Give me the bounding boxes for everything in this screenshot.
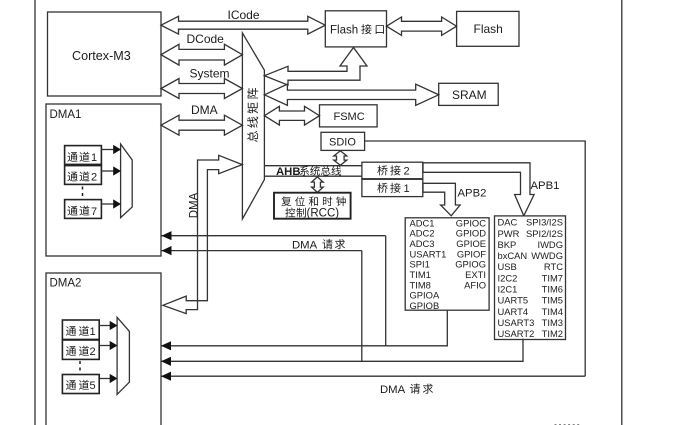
svg-text:TIM7: TIM7 — [542, 272, 563, 283]
svg-text:TIM4: TIM4 — [542, 306, 563, 317]
block SDIO — [321, 132, 365, 150]
svg-text:SPI3/I2S: SPI3/I2S — [526, 217, 563, 228]
svg-text:Flash: Flash — [330, 24, 358, 36]
bus matrix label 总线矩阵 (rotated) — [247, 131, 258, 142]
svg-text:DMA: DMA — [188, 192, 200, 218]
block FSMC — [320, 105, 378, 127]
svg-text:ICode: ICode — [228, 8, 260, 22]
svg-text:ADC2: ADC2 — [410, 228, 435, 239]
block Flash — [457, 11, 519, 46]
svg-text:I2C1: I2C1 — [498, 284, 518, 295]
block bridge1 桥接1 — [362, 179, 423, 196]
svg-text:DMA1: DMA1 — [50, 109, 82, 121]
bridge1 to APB2 hollow path — [423, 183, 460, 216]
svg-text:APB2: APB2 — [458, 187, 487, 199]
svg-text:1: 1 — [91, 152, 97, 164]
svg-text:RTC: RTC — [544, 261, 563, 272]
SDIO <-> AHB arrow — [334, 151, 347, 166]
svg-text:System: System — [190, 67, 230, 81]
svg-text:USART3: USART3 — [498, 317, 535, 328]
svg-text:FSMC: FSMC — [334, 111, 365, 123]
svg-text:TIM2: TIM2 — [542, 328, 563, 339]
APB1 peripheral list box — [495, 216, 566, 340]
svg-text:5: 5 — [90, 380, 96, 392]
DMA2 request line 1 (from APB2 box) — [161, 311, 447, 346]
svg-text:AFIO: AFIO — [464, 279, 486, 290]
APB2 peripheral list box — [405, 218, 489, 310]
bus matrix <-> SRAM arrow — [264, 84, 438, 105]
DMA1 ch7 arrow — [101, 203, 114, 205]
svg-text:DCode: DCode — [187, 32, 225, 46]
DMA2 to bus matrix Z-arrow — [163, 155, 242, 313]
DMA2 ch2 arrow — [99, 345, 110, 347]
svg-text:2: 2 — [90, 346, 96, 358]
DMA2 mux funnel — [117, 317, 129, 394]
svg-text:TIM3: TIM3 — [542, 317, 563, 328]
svg-text:7: 7 — [91, 206, 97, 218]
DMA1 channel dots — [82, 187, 84, 199]
AHB system bus band — [264, 165, 362, 167]
svg-text:2: 2 — [91, 172, 97, 184]
bus matrix to flash interface L-arrow — [264, 48, 367, 86]
svg-text:DMA: DMA — [191, 103, 218, 117]
DMA1 ch1 arrow — [101, 149, 114, 151]
svg-text:DMA2: DMA2 — [50, 278, 82, 290]
System bus arrow — [161, 79, 242, 99]
svg-text:SPI2/I2S: SPI2/I2S — [526, 228, 563, 239]
svg-text:WWDG: WWDG — [531, 250, 563, 261]
DMA1 request line 2 (from APB1) — [162, 250, 362, 252]
bus matrix trapezoid — [242, 33, 264, 219]
bus matrix <-> FSMC arrow — [264, 106, 319, 125]
DMA1 channel 7 box — [65, 200, 102, 219]
DMA2 channel 1 box — [62, 320, 99, 339]
svg-text:SPI1: SPI1 — [410, 259, 430, 270]
DMA2 channel 2 box — [62, 340, 99, 359]
svg-text:GPIOB: GPIOB — [410, 300, 440, 311]
svg-text:2: 2 — [404, 166, 410, 178]
svg-text:PWR: PWR — [498, 228, 520, 239]
svg-text:1: 1 — [90, 326, 96, 338]
ICode bus arrow — [161, 16, 325, 34]
DMA2 request line 2 (from APB1 box) — [161, 339, 523, 362]
svg-text:bxCAN: bxCAN — [498, 250, 528, 261]
svg-text:TIM5: TIM5 — [542, 295, 563, 306]
DMA1 channel 2 box — [65, 166, 102, 185]
svg-text:DAC: DAC — [498, 217, 518, 228]
cut-off watermark marks — [555, 424, 557, 425]
svg-text:SDIO: SDIO — [329, 137, 356, 149]
SDIO to right-side line — [365, 141, 586, 376]
svg-text:IWDG: IWDG — [537, 239, 563, 250]
DMA2 channel dots — [79, 361, 81, 373]
svg-text:AHB: AHB — [276, 166, 300, 178]
svg-text:GPIOD: GPIOD — [456, 228, 486, 239]
flash interface <-> flash arrow — [387, 17, 457, 35]
svg-text:I2C2: I2C2 — [498, 272, 518, 283]
block DMA1 — [46, 104, 161, 256]
DMA2 ch5 arrow — [99, 378, 110, 380]
svg-text:SRAM: SRAM — [452, 88, 487, 102]
svg-text:UART4: UART4 — [498, 306, 529, 317]
svg-text:Cortex-M3: Cortex-M3 — [72, 49, 131, 63]
block SRAM — [439, 83, 499, 105]
DMA2 ch1 arrow — [99, 325, 110, 327]
AHB <-> RCC arrow — [312, 177, 324, 193]
svg-text:BKP: BKP — [498, 239, 517, 250]
page border left — [34, 0, 36, 425]
DMA2 channel 5 box — [62, 375, 99, 394]
DMA1 channel 1 box — [65, 146, 102, 165]
svg-text:USB: USB — [498, 261, 517, 272]
DMA2 request line 3 (right side) — [161, 375, 585, 377]
svg-text:1: 1 — [404, 183, 410, 195]
svg-text:DMA: DMA — [380, 384, 406, 396]
block Cortex-M3 — [48, 12, 162, 96]
svg-text:TIM6: TIM6 — [542, 284, 563, 295]
block DMA2 — [46, 273, 161, 425]
DMA1 ch2 arrow — [101, 170, 114, 172]
block Flash interface — [325, 11, 386, 47]
svg-text:(RCC): (RCC) — [307, 208, 340, 220]
page border right — [621, 0, 623, 425]
block bridge2 桥接2 — [362, 162, 423, 179]
svg-text:Flash: Flash — [474, 22, 503, 36]
bridge2 to APB1 hollow path — [423, 163, 534, 216]
svg-text:DMA: DMA — [292, 239, 318, 251]
svg-text:UART5: UART5 — [498, 295, 529, 306]
DMA1 mux funnel — [121, 144, 133, 218]
svg-text:USART2: USART2 — [498, 328, 535, 339]
svg-text:APB1: APB1 — [531, 180, 560, 192]
svg-text:GPIOG: GPIOG — [455, 259, 486, 270]
DMA1 request line 1 (from APB2) — [162, 235, 386, 237]
DMA bus arrow (DMA1) — [161, 115, 242, 135]
DCode bus arrow — [161, 44, 242, 65]
block RCC 复位和时钟控制 — [274, 193, 351, 219]
